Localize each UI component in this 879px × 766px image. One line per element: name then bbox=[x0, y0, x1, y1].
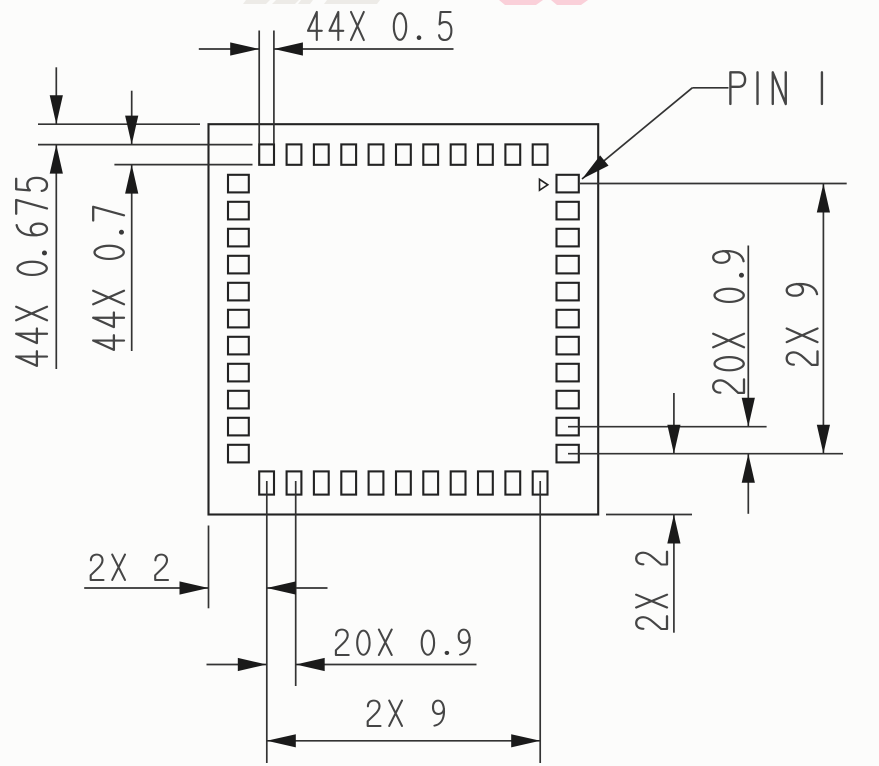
dimension 2X 2 (bottom, edge to first pad) bbox=[84, 526, 327, 609]
right pad column (11 pads, pin 1 pad at top) bbox=[557, 175, 579, 463]
dimension 2X 9 (right, pad row span) bbox=[568, 184, 847, 454]
package outline (QFN body / land pattern boundary) bbox=[209, 124, 599, 514]
top pad row (11 pads) bbox=[259, 144, 547, 164]
watermark remnants (gray letters cut at top edge) bbox=[243, 0, 380, 4]
dimension 44X 0.675 (left, pad top offset) bbox=[16, 67, 252, 369]
dimension 20X 0.9 (bottom, pad pitch) bbox=[207, 630, 477, 672]
pin 1 index triangle marker bbox=[540, 179, 548, 190]
dimension 20X 0.9 (right, pad pitch) bbox=[568, 246, 767, 514]
dimension 2X 9 (bottom, pad row span) bbox=[267, 701, 540, 748]
dimension 44X 0.7 (left, pad height) bbox=[93, 91, 252, 351]
watermark remnants (pink letters cut at top edge) bbox=[499, 0, 588, 5]
dimension 44X 0.5 (top, pad width) bbox=[199, 12, 454, 144]
dimension 2X 2 (right, last pad to edge) bbox=[606, 393, 692, 633]
bottom pad row (11 pads) bbox=[259, 471, 547, 494]
left pad column (11 pads) bbox=[228, 175, 249, 463]
extension lines from bottom pad centers bbox=[267, 481, 540, 763]
leader PIN 1 (callout to pin 1 pad) bbox=[578, 72, 822, 184]
